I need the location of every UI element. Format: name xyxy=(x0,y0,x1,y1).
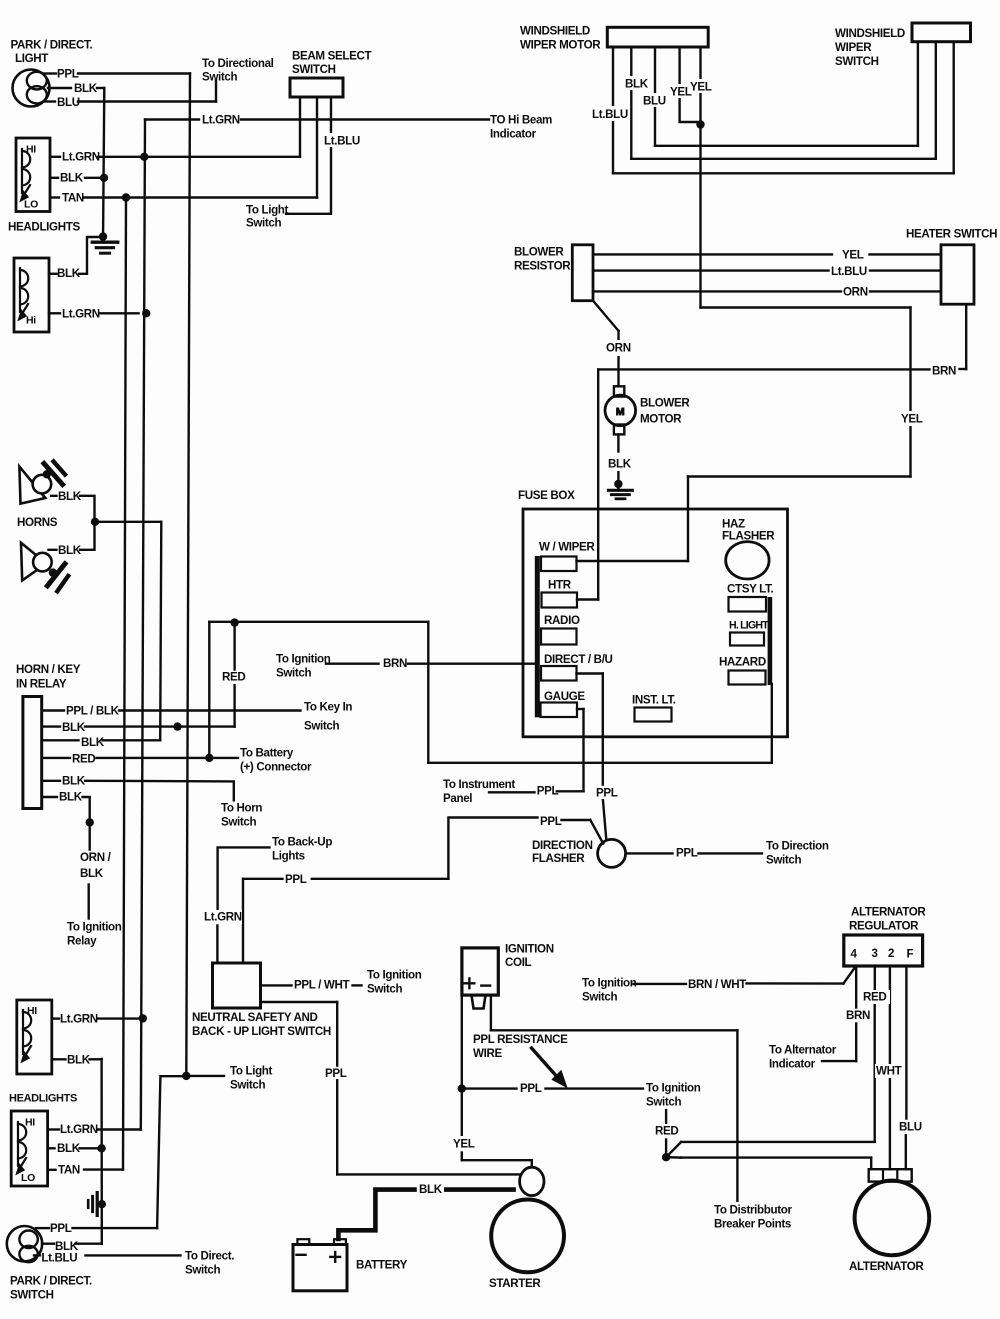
svg-text:BLK: BLK xyxy=(419,1183,443,1196)
svg-text:Switch: Switch xyxy=(646,1096,682,1109)
svg-text:BLK: BLK xyxy=(62,721,86,734)
svg-text:Lt.BLU: Lt.BLU xyxy=(592,108,628,121)
svg-text:BLK: BLK xyxy=(74,82,98,95)
svg-text:Switch: Switch xyxy=(246,217,282,230)
svg-text:BLK: BLK xyxy=(625,78,649,91)
svg-text:Lt.GRN: Lt.GRN xyxy=(62,307,100,320)
svg-text:LIGHT: LIGHT xyxy=(15,52,48,65)
svg-text:To Horn: To Horn xyxy=(221,802,262,815)
svg-text:HTR: HTR xyxy=(548,579,572,592)
svg-text:BLK: BLK xyxy=(57,1142,81,1155)
svg-text:HI: HI xyxy=(26,144,36,156)
svg-text:LO: LO xyxy=(24,199,38,211)
svg-text:PARK / DIRECT.: PARK / DIRECT. xyxy=(10,1275,92,1288)
svg-text:Switch: Switch xyxy=(582,991,618,1004)
svg-text:BLK: BLK xyxy=(608,458,632,471)
svg-text:To Back-Up: To Back-Up xyxy=(272,836,332,849)
svg-text:2: 2 xyxy=(888,947,894,960)
svg-text:BLK: BLK xyxy=(67,1054,91,1067)
svg-text:RED: RED xyxy=(655,1125,678,1138)
svg-text:Lights: Lights xyxy=(272,850,305,863)
svg-text:To Direct.: To Direct. xyxy=(185,1250,234,1263)
svg-text:PPL: PPL xyxy=(540,815,562,828)
svg-text:To Instrument: To Instrument xyxy=(443,778,515,791)
svg-text:ALTERNATOR: ALTERNATOR xyxy=(851,906,926,919)
svg-text:YEL: YEL xyxy=(670,86,692,99)
svg-text:GAUGE: GAUGE xyxy=(544,690,585,703)
svg-text:PPL: PPL xyxy=(676,847,698,860)
svg-text:IN RELAY: IN RELAY xyxy=(16,678,67,691)
svg-text:ORN: ORN xyxy=(843,285,868,298)
svg-text:BRN: BRN xyxy=(383,657,407,670)
svg-text:To Light: To Light xyxy=(230,1065,273,1078)
svg-text:Switch: Switch xyxy=(230,1079,266,1092)
svg-text:RESISTOR: RESISTOR xyxy=(514,260,571,273)
svg-text:FLASHER: FLASHER xyxy=(722,530,775,543)
svg-text:PPL: PPL xyxy=(50,1222,72,1235)
svg-text:BRN: BRN xyxy=(846,1009,870,1022)
svg-text:WHT: WHT xyxy=(876,1065,902,1078)
svg-text:BLK: BLK xyxy=(60,172,84,185)
svg-text:PPL / BLK: PPL / BLK xyxy=(66,705,120,718)
svg-text:MOTOR: MOTOR xyxy=(640,413,682,426)
svg-text:PARK / DIRECT.: PARK / DIRECT. xyxy=(11,39,93,52)
svg-text:BLK: BLK xyxy=(62,775,86,788)
svg-text:WINDSHIELD: WINDSHIELD xyxy=(520,25,590,38)
svg-text:WIPER: WIPER xyxy=(835,41,872,54)
svg-text:HEADLIGHTS: HEADLIGHTS xyxy=(8,221,80,234)
svg-text:F: F xyxy=(907,948,914,961)
svg-text:REGULATOR: REGULATOR xyxy=(849,920,919,933)
svg-text:HI: HI xyxy=(27,1005,37,1017)
svg-text:YEL: YEL xyxy=(901,413,923,426)
svg-text:(+) Connector: (+) Connector xyxy=(240,761,312,774)
svg-text:INST. LT.: INST. LT. xyxy=(632,694,676,707)
svg-text:4: 4 xyxy=(851,948,858,961)
svg-text:BLK: BLK xyxy=(58,490,82,503)
svg-text:DIRECTION: DIRECTION xyxy=(532,839,593,852)
svg-text:RED: RED xyxy=(72,753,95,766)
svg-text:NEUTRAL SAFETY AND: NEUTRAL SAFETY AND xyxy=(192,1011,318,1024)
svg-text:To Light: To Light xyxy=(246,204,289,217)
svg-text:Lt.GRN: Lt.GRN xyxy=(62,151,100,164)
svg-text:PPL: PPL xyxy=(325,1067,347,1080)
svg-text:BRN / WHT: BRN / WHT xyxy=(688,978,746,991)
svg-text:To Ignition: To Ignition xyxy=(646,1082,701,1095)
svg-text:To Distribbutor: To Distribbutor xyxy=(714,1204,792,1217)
svg-text:H. LIGHT: H. LIGHT xyxy=(729,620,769,632)
svg-text:RADIO: RADIO xyxy=(544,614,580,627)
svg-text:Lt.BLU: Lt.BLU xyxy=(41,1252,77,1265)
svg-text:To Ignition: To Ignition xyxy=(367,969,422,982)
svg-text:Breaker Points: Breaker Points xyxy=(714,1218,791,1231)
svg-text:BEAM SELECT: BEAM SELECT xyxy=(292,50,372,63)
svg-text:W / WIPER: W / WIPER xyxy=(539,541,595,554)
svg-text:To Directional: To Directional xyxy=(202,57,274,70)
svg-text:Switch: Switch xyxy=(202,71,238,84)
svg-text:BLU: BLU xyxy=(57,96,80,109)
svg-text:Switch: Switch xyxy=(367,983,403,996)
svg-text:BLOWER: BLOWER xyxy=(640,397,690,410)
svg-text:LO: LO xyxy=(21,1172,35,1184)
svg-text:HEATER SWITCH: HEATER SWITCH xyxy=(906,228,997,241)
svg-text:ORN /: ORN / xyxy=(80,851,112,864)
svg-text:BLK: BLK xyxy=(81,736,105,749)
svg-text:BLU: BLU xyxy=(643,95,666,108)
svg-text:Lt.GRN: Lt.GRN xyxy=(60,1013,98,1026)
svg-text:FUSE BOX: FUSE BOX xyxy=(518,489,575,502)
svg-text:IGNITION: IGNITION xyxy=(505,943,554,956)
svg-text:Switch: Switch xyxy=(221,816,257,829)
svg-text:HEADLIGHTS: HEADLIGHTS xyxy=(9,1093,77,1105)
svg-text:SWITCH: SWITCH xyxy=(292,63,336,76)
svg-text:STARTER: STARTER xyxy=(489,1277,541,1290)
svg-text:To Direction: To Direction xyxy=(766,840,829,853)
svg-text:Lt.BLU: Lt.BLU xyxy=(831,265,867,278)
svg-text:Switch: Switch xyxy=(766,854,802,867)
svg-text:BLK: BLK xyxy=(59,791,83,804)
svg-text:CTSY LT.: CTSY LT. xyxy=(727,583,773,596)
svg-text:HI: HI xyxy=(25,1117,35,1129)
svg-text:To Battery: To Battery xyxy=(240,747,294,760)
svg-text:ALTERNATOR: ALTERNATOR xyxy=(849,1260,924,1273)
svg-text:BATTERY: BATTERY xyxy=(356,1259,408,1272)
svg-text:PPL: PPL xyxy=(285,873,307,886)
svg-text:ORN: ORN xyxy=(606,342,631,355)
svg-text:HORNS: HORNS xyxy=(17,516,58,529)
svg-text:Indicator: Indicator xyxy=(490,128,537,141)
svg-text:PPL: PPL xyxy=(520,1082,542,1095)
svg-text:WIPER MOTOR: WIPER MOTOR xyxy=(520,39,601,52)
svg-text:SWITCH: SWITCH xyxy=(835,55,879,68)
svg-text:Switch: Switch xyxy=(185,1264,221,1277)
svg-text:To Key In: To Key In xyxy=(304,701,352,714)
svg-text:RED: RED xyxy=(863,991,886,1004)
svg-text:To Ignition: To Ignition xyxy=(67,921,122,934)
svg-text:FLASHER: FLASHER xyxy=(532,852,585,865)
svg-text:PPL: PPL xyxy=(57,68,79,81)
svg-text:BLOWER: BLOWER xyxy=(514,246,564,259)
svg-text:WINDSHIELD: WINDSHIELD xyxy=(835,27,905,40)
svg-text:SWITCH: SWITCH xyxy=(10,1289,54,1302)
svg-text:Switch: Switch xyxy=(276,667,312,680)
svg-text:TAN: TAN xyxy=(62,191,84,204)
svg-text:BLK: BLK xyxy=(80,867,104,880)
svg-text:To Alternator: To Alternator xyxy=(769,1044,837,1057)
svg-text:Lt.BLU: Lt.BLU xyxy=(324,135,360,148)
svg-text:PPL / WHT: PPL / WHT xyxy=(294,979,350,992)
svg-text:BACK - UP LIGHT SWITCH: BACK - UP LIGHT SWITCH xyxy=(192,1025,331,1038)
svg-text:BLU: BLU xyxy=(899,1121,922,1134)
svg-text:HAZARD: HAZARD xyxy=(719,656,766,669)
svg-text:To Ignition: To Ignition xyxy=(276,653,331,666)
svg-text:Lt.GRN: Lt.GRN xyxy=(204,911,242,924)
svg-text:TO Hi Beam: TO Hi Beam xyxy=(490,114,552,127)
svg-text:Relay: Relay xyxy=(67,935,97,948)
svg-text:Switch: Switch xyxy=(304,720,340,733)
svg-text:Lt.GRN: Lt.GRN xyxy=(60,1123,98,1136)
svg-text:BRN: BRN xyxy=(932,365,956,378)
svg-text:YEL: YEL xyxy=(842,248,864,261)
svg-text:RED: RED xyxy=(222,671,245,684)
svg-text:PPL: PPL xyxy=(596,787,618,800)
svg-text:BLK: BLK xyxy=(58,544,82,557)
svg-text:PPL RESISTANCE: PPL RESISTANCE xyxy=(473,1033,568,1046)
svg-text:Hi: Hi xyxy=(26,315,36,327)
svg-text:M: M xyxy=(616,406,625,418)
svg-text:To Ignition: To Ignition xyxy=(582,977,637,990)
svg-text:HORN / KEY: HORN / KEY xyxy=(16,663,81,676)
svg-text:YEL: YEL xyxy=(690,81,712,94)
svg-text:WIRE: WIRE xyxy=(473,1047,502,1060)
svg-text:PPL: PPL xyxy=(537,785,559,798)
svg-text:Indicator: Indicator xyxy=(769,1058,816,1071)
svg-text:Lt.GRN: Lt.GRN xyxy=(202,113,240,126)
svg-text:COIL: COIL xyxy=(505,956,532,969)
svg-text:3: 3 xyxy=(872,947,879,960)
svg-text:TAN: TAN xyxy=(58,1164,80,1177)
svg-text:YEL: YEL xyxy=(453,1138,475,1151)
svg-text:BLK: BLK xyxy=(57,267,81,280)
svg-text:DIRECT / B/U: DIRECT / B/U xyxy=(544,653,613,666)
svg-text:Panel: Panel xyxy=(443,792,472,805)
